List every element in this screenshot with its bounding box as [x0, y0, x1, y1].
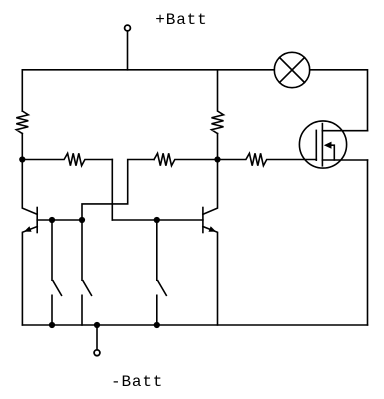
MOSFET M1 channel bar [321, 124, 323, 166]
transistor Q1 emitter [22, 227, 37, 326]
wire top rail [22, 70, 274, 111]
switch S2 blade [83, 281, 92, 296]
switch S2 top lead [81, 220, 83, 280]
node B junction dot [214, 156, 220, 162]
transistor Q2 emitter arrow [209, 226, 217, 232]
terminal +Batt stub wire [127, 31, 129, 70]
MOSFET M1 circle [299, 121, 346, 168]
switch S3 blade [158, 281, 167, 296]
wire cross-couple R3 output down to Q2 base row [111, 160, 113, 221]
terminal -Batt stub wire [96, 325, 98, 350]
transistor Q1 base wire [37, 219, 82, 221]
terminal +Batt circle [125, 25, 131, 31]
node G junction dot (-Batt / rail) [94, 322, 100, 328]
lamp DS1 cross [280, 58, 305, 83]
resistor R5 (gate horizontal) [218, 153, 317, 165]
node H junction dot (S3 / rail) [154, 322, 160, 328]
switch S3 top lead [156, 220, 158, 280]
switch S1 top lead [51, 220, 53, 280]
node D junction dot (Q1 base / S2 / R4) [79, 217, 85, 223]
wire R2 to node B [217, 134, 219, 160]
terminal -Batt circle [94, 350, 100, 356]
resistor R2 (middle vertical) [212, 70, 224, 134]
switch S1 bottom lead [51, 295, 53, 325]
wire R4 left lead with jog down to Q1 base node [82, 160, 154, 221]
transistor Q2 collector wire [203, 160, 218, 215]
lamp DS1 circle [274, 52, 309, 87]
transistor Q1 base bar [36, 208, 38, 233]
resistor R1 (left vertical) [16, 111, 28, 134]
transistor Q1 emitter arrow [24, 226, 32, 232]
switch S3 bottom lead [156, 295, 158, 325]
MOSFET M1 body arrow [324, 142, 332, 149]
node E junction dot (Q2 base / S3) [154, 217, 160, 223]
switch S1 blade [53, 281, 62, 296]
MOSFET M1 gate bar [315, 130, 317, 160]
svg-text:+Batt: +Batt [155, 11, 207, 29]
wire source to bottom rail [367, 160, 369, 325]
MOSFET M1 drain lead [322, 130, 367, 132]
node F junction dot (S1 / rail) [49, 322, 55, 328]
wire Q2 base row [112, 219, 203, 221]
resistor R4 (center horizontal) [154, 153, 218, 165]
transistor Q2 emitter [203, 227, 218, 326]
wire bottom rail [22, 324, 367, 326]
MOSFET M1 body wire [331, 145, 335, 160]
switch S2 bottom lead [81, 295, 83, 325]
node A junction dot [19, 156, 25, 162]
wire lamp to drain [310, 70, 368, 131]
svg-text:-Batt: -Batt [111, 373, 163, 391]
wire R1 to node A [21, 134, 23, 160]
node C junction dot (Q1 base / S1) [49, 217, 55, 223]
resistor R3 (left horizontal) [22, 153, 112, 165]
transistor Q2 base bar [202, 208, 204, 233]
MOSFET M1 source lead [322, 159, 367, 161]
transistor Q1 collector wire [22, 160, 37, 215]
